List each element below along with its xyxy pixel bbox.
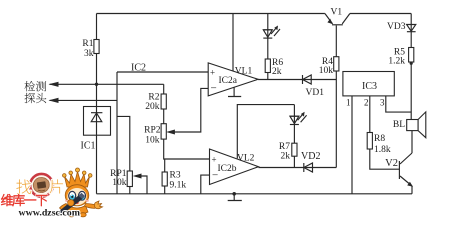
svg-text:IC1: IC1 xyxy=(81,141,96,152)
op-amp IC2b xyxy=(210,149,259,185)
svg-text:www.dzsc.com: www.dzsc.com xyxy=(19,208,81,219)
wire probe line 2 (to ground column) xyxy=(50,99,118,101)
svg-text:BL: BL xyxy=(393,120,405,130)
node junction dot below R5 xyxy=(410,62,413,65)
svg-text:V2: V2 xyxy=(385,158,398,169)
svg-text:2k: 2k xyxy=(281,152,291,162)
wire branch to RP1 top xyxy=(117,116,130,171)
resistor R4 10k xyxy=(319,57,339,76)
resistor R8 1.8k xyxy=(367,133,391,156)
svg-text:1: 1 xyxy=(346,98,351,108)
wire top rail left segment (+V) xyxy=(97,13,325,15)
wire V2 emitter to rail xyxy=(411,186,413,194)
svg-text:1.2k: 1.2k xyxy=(388,57,405,67)
resistor R5 1.2k xyxy=(388,48,413,67)
svg-text:RP2: RP2 xyxy=(144,126,161,136)
wire bottom ground rail xyxy=(97,193,413,195)
resistor R7 2k xyxy=(279,142,297,162)
svg-text:R1: R1 xyxy=(82,39,93,49)
wire main left column through R1 and IC1 xyxy=(96,14,98,194)
svg-text:R8: R8 xyxy=(374,134,385,144)
diode VD2 xyxy=(301,151,320,172)
wire IC3 pin3 L-wire to speaker column xyxy=(386,96,411,112)
watermark: black pen xyxy=(56,193,85,216)
svg-text:IC2b: IC2b xyxy=(218,164,237,174)
photo-sensor IC1 box with zener diode xyxy=(81,107,111,152)
wire top rail right segment (V1 collector to VD3) xyxy=(350,13,411,15)
resistor R2 20k xyxy=(145,93,166,113)
svg-text:VD3: VD3 xyxy=(387,22,406,32)
diode VD1 xyxy=(303,75,325,98)
resistor R1 3k xyxy=(82,39,99,59)
svg-text:+: + xyxy=(212,155,217,165)
wire R8 bottom then right to V2 base xyxy=(370,149,400,169)
watermark: mascot head and face xyxy=(65,185,89,206)
svg-text:9.1k: 9.1k xyxy=(170,181,187,191)
diode VD3 xyxy=(387,22,416,32)
wire RP2 bottom lead down then right to IC2b + input xyxy=(164,139,210,159)
wire IC3 pin2 down to R8 xyxy=(369,96,371,133)
wire RP2 wiper to IC2a inverting input xyxy=(173,88,209,132)
watermark: 维库一下 red text xyxy=(1,194,13,206)
transistor V1 (PNP) xyxy=(325,8,350,25)
svg-text:2k: 2k xyxy=(272,67,282,77)
svg-text:−: − xyxy=(211,83,217,95)
node junction dot at R1/probe xyxy=(95,83,98,86)
wire IC2a non-inverting input row xyxy=(117,71,208,73)
resistor R6 2k xyxy=(265,58,283,77)
potentiometer RP1 10k xyxy=(110,169,132,188)
IC3 box xyxy=(343,72,394,108)
ground symbol at bottom rail xyxy=(228,192,242,201)
wire BL bottom to V2 collector xyxy=(411,131,413,153)
wire RP1 wiper arrowhead xyxy=(133,174,142,179)
svg-text:10k: 10k xyxy=(112,178,127,188)
wire IC2b V+ pin L-wire to VL2 column xyxy=(237,105,294,159)
wire RP2 wiper arrowhead xyxy=(166,130,175,135)
wire R5 bottom down to BL speaker xyxy=(410,62,412,120)
wire R4 bottom lead xyxy=(335,71,337,80)
svg-text:VL1: VL1 xyxy=(235,67,253,77)
svg-text:+: + xyxy=(210,68,215,78)
svg-text:10k: 10k xyxy=(145,136,160,146)
wire VL1/R6 column from top rail xyxy=(267,14,269,80)
svg-text:R2: R2 xyxy=(148,93,159,103)
svg-text:R7: R7 xyxy=(279,142,290,152)
wire probe arrowhead 2 xyxy=(49,98,59,103)
wire RP1 wiper down to rail xyxy=(139,176,148,194)
node: probe label 探头 xyxy=(25,93,47,103)
watermark: red badge circle with hand holding chip xyxy=(30,174,53,197)
transistor V2 (NPN) xyxy=(385,153,413,187)
wire IC2b inverting input down to rail xyxy=(201,175,210,194)
svg-text:10k: 10k xyxy=(319,66,334,76)
resistor R3 9.1k xyxy=(162,171,186,191)
svg-text:VD1: VD1 xyxy=(306,88,325,98)
wire R2 column top lead xyxy=(163,84,165,94)
wire R2 bottom to RP2 top xyxy=(163,109,165,124)
node: probe label 检测 xyxy=(25,81,47,91)
wire IC2b output row to VD2 and R4 column riser xyxy=(259,167,337,169)
svg-text:IC2: IC2 xyxy=(131,63,146,74)
IC2a ground pin xyxy=(228,87,241,96)
wire V1 base lead down to R4 xyxy=(335,26,337,57)
wire R3 top lead from + row xyxy=(164,159,166,172)
op-amp IC2a xyxy=(131,63,258,97)
watermark: gold chars 找 片 xyxy=(16,180,31,194)
wire probe arrowhead 1 xyxy=(49,82,59,87)
LED VL1 xyxy=(235,26,280,77)
potentiometer RP2 10k xyxy=(144,124,166,146)
svg-text:IC3: IC3 xyxy=(362,81,377,92)
wire VD1/VD2 junction column up to R4 bottom xyxy=(335,80,337,168)
LED VL2 xyxy=(237,112,307,164)
svg-text:V1: V1 xyxy=(331,8,343,18)
wire ground reference column x=116.5 down to rail xyxy=(116,72,118,194)
svg-text:20k: 20k xyxy=(145,102,160,112)
wire VL2/R7 column xyxy=(293,105,295,168)
wire IC2a output row to VD1 and R4 column xyxy=(258,79,336,81)
svg-text:IC2a: IC2a xyxy=(219,76,238,86)
svg-text:VL2: VL2 xyxy=(237,154,255,164)
wire RP1 bottom lead xyxy=(129,187,131,194)
svg-text:3: 3 xyxy=(380,98,385,108)
wire VD3 to R5 xyxy=(410,14,412,48)
svg-text:R3: R3 xyxy=(170,171,181,181)
svg-text:2: 2 xyxy=(364,98,369,108)
wire IC3 pin1 down to ground rail xyxy=(351,96,353,194)
svg-text:1.8k: 1.8k xyxy=(374,145,391,155)
speaker BL xyxy=(393,112,426,138)
svg-text:VD2: VD2 xyxy=(301,151,320,162)
wire R3 bottom lead to rail xyxy=(164,186,166,194)
watermark: mascot crown xyxy=(63,168,92,187)
wire probe line 1 (to R1/IC1 node) xyxy=(50,83,164,85)
wire IC2a V+ pin to top rail xyxy=(232,14,234,72)
svg-text:3k: 3k xyxy=(84,49,94,59)
watermark: mascot body, arms, feet xyxy=(60,201,103,217)
